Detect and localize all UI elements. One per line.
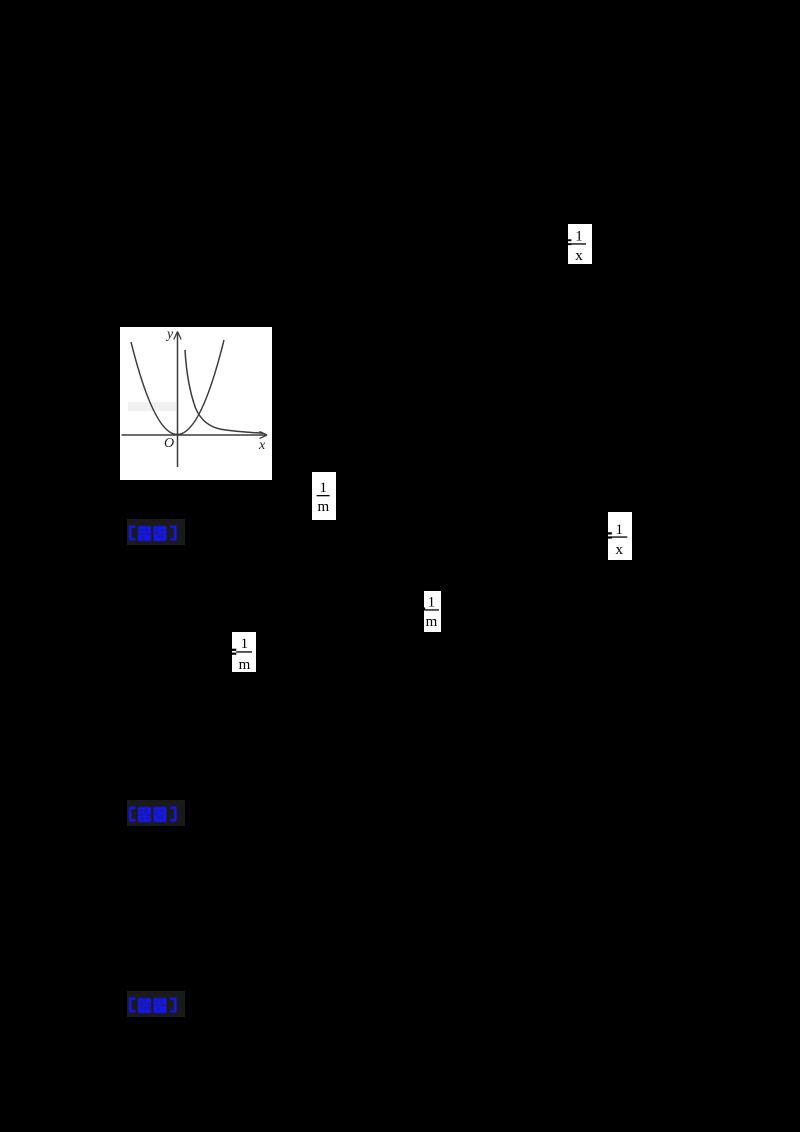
- svg-text:x: x: [616, 542, 624, 558]
- fraction F5: = 1/x: [608, 512, 632, 560]
- svg-text:m: m: [426, 614, 438, 630]
- svg-text:m: m: [239, 657, 251, 672]
- blue label 1: [127, 519, 185, 545]
- svg-text:m: m: [317, 499, 329, 515]
- svg-text:1: 1: [320, 480, 328, 496]
- graph image: parabola and hyperbola on axes: [120, 327, 272, 480]
- svg-text:x: x: [575, 248, 583, 264]
- fraction F3: 1/m: [312, 472, 336, 520]
- svg-text:1: 1: [241, 636, 249, 652]
- faint smudge artifact: [128, 402, 176, 411]
- svg-text:x: x: [258, 438, 266, 453]
- hyperbola branch: [185, 350, 263, 433]
- x-axis: [122, 434, 267, 436]
- fraction F7: = 1/m: [232, 632, 256, 672]
- parabola: [131, 340, 224, 435]
- svg-text:1: 1: [575, 228, 583, 244]
- blue label 2: [127, 800, 185, 826]
- svg-text:1: 1: [616, 522, 624, 538]
- svg-text:O: O: [164, 436, 174, 451]
- y-axis: [177, 333, 179, 467]
- blue label 3: [127, 991, 185, 1017]
- fraction F6: 1/m: [424, 591, 441, 632]
- svg-text:y: y: [165, 327, 174, 342]
- svg-text:1: 1: [428, 594, 436, 610]
- fraction F1: = 1/x: [568, 224, 592, 264]
